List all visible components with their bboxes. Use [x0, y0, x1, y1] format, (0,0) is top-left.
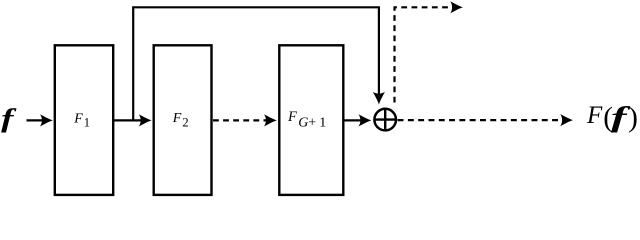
svg-text:F: F [172, 111, 182, 126]
svg-text:): ) [628, 102, 638, 134]
wire : dashed F2 to FG+1 [213, 114, 277, 126]
svg-text:G: G [298, 115, 308, 130]
svg-text:2: 2 [182, 115, 188, 129]
wire : dashed adder output to F(f) [398, 114, 573, 126]
block FG+1 : third box [279, 45, 343, 195]
svg-text:F: F [287, 109, 297, 125]
block F1 : first box [55, 45, 113, 195]
label F1 [73, 112, 90, 130]
wire : input arrow f to F1 [27, 114, 53, 126]
wire : FG+1 to adder [344, 114, 371, 126]
svg-text:1: 1 [319, 115, 326, 130]
svg-text:+: + [308, 115, 316, 130]
wire : solid skip connection from junction up over to adder [133, 7, 385, 120]
svg-text:f: f [1, 104, 17, 133]
svg-text:F: F [586, 102, 603, 129]
wire : F1 to F2 with junction tap [114, 114, 152, 126]
block F2 : second box [154, 45, 212, 195]
node F(f) : output label [586, 102, 638, 134]
label F2 [172, 111, 189, 130]
label FG+1 [287, 109, 326, 130]
adder : circle-plus summation node [374, 109, 396, 131]
svg-text:1: 1 [84, 115, 90, 129]
svg-text:F: F [73, 112, 83, 127]
wire : dashed branch to next group (top right) [395, 1, 464, 102]
